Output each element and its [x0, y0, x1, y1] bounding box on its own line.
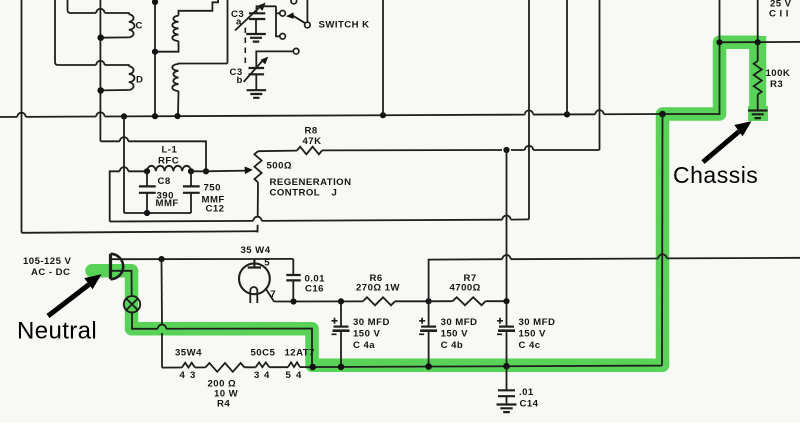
svg-text:AC - DC: AC - DC — [31, 267, 70, 278]
AC plug — [109, 254, 112, 279]
coil D bottom lead — [101, 89, 129, 91]
svg-text:7: 7 — [270, 289, 276, 300]
svg-text:C12: C12 — [206, 204, 225, 215]
svg-text:4: 4 — [180, 370, 186, 381]
node neutral-heater junction — [309, 364, 316, 371]
heater 12AT7 — [288, 362, 300, 367]
node RFC out — [203, 168, 209, 174]
node grid junction — [503, 147, 509, 153]
coil secondary-1 bottom lead — [155, 41, 179, 52]
svg-text:D: D — [136, 75, 143, 86]
svg-text:47K: 47K — [303, 136, 322, 147]
potentiometer 500ohm — [254, 151, 261, 182]
svg-text:R4: R4 — [217, 398, 230, 409]
wire secondary vertical — [154, 0, 156, 116]
svg-text:35W4: 35W4 — [175, 348, 202, 359]
svg-text:4: 4 — [264, 370, 270, 381]
svg-text:12AT7: 12AT7 — [285, 348, 315, 359]
svg-text:500Ω: 500Ω — [267, 161, 293, 172]
C4c minus sign — [497, 333, 502, 335]
resistor R7 — [453, 297, 486, 305]
ground below C14 — [497, 405, 517, 413]
capacitor C3b arrow — [244, 59, 264, 82]
switch K top contact — [291, 0, 297, 4]
wire heater feed vertical — [161, 259, 164, 368]
capacitor C3a ground lead — [255, 19, 257, 34]
coil C bottom lead — [101, 36, 129, 38]
ground below C3a — [246, 34, 266, 42]
coil secondary-1 top lead — [179, 0, 219, 16]
pilot lamp — [124, 296, 140, 312]
svg-text:C16: C16 — [305, 284, 324, 295]
svg-text:L-1: L-1 — [162, 145, 178, 156]
switch K contact 1 — [280, 11, 286, 17]
node bus-383 — [380, 112, 386, 118]
bus hop over antenna line — [17, 113, 25, 117]
wire switch-K line to bus — [382, 0, 384, 115]
svg-text:C8: C8 — [158, 176, 171, 187]
node RFC right — [188, 168, 194, 174]
svg-text:Chassis: Chassis — [673, 162, 758, 188]
wire plug neutral lead — [112, 271, 132, 296]
node jog junction — [716, 39, 722, 45]
node primary-C junction — [97, 34, 104, 41]
capacitor C3b terminal circle — [293, 48, 299, 54]
bus hop over V1 — [525, 110, 533, 114]
resistor R4 — [206, 363, 245, 372]
capacitor C3b terminal lead — [256, 51, 293, 67]
node C16 bottom — [290, 298, 296, 304]
coil D — [129, 66, 135, 90]
wire switch feed vertical — [276, 6, 280, 36]
node C4b top — [426, 298, 432, 304]
capacitor C14 — [506, 366, 508, 390]
wire cap bottom line — [124, 212, 191, 214]
wire C11 line — [719, 0, 721, 42]
svg-text:SWITCH K: SWITCH K — [319, 19, 370, 30]
wire pin7 line — [274, 300, 363, 302]
svg-text:R8: R8 — [305, 126, 318, 137]
wire bus to cap bottom — [123, 116, 125, 213]
svg-text:C14: C14 — [520, 398, 539, 409]
wire transformer primary vertical — [99, 0, 101, 141]
wire grid line vertical — [599, 0, 601, 150]
heater 50C5 — [256, 362, 270, 367]
bus hop over grid line — [595, 110, 603, 114]
svg-text:30 MFD: 30 MFD — [441, 317, 478, 328]
svg-text:150 V: 150 V — [441, 329, 468, 340]
wire RFC left lead — [110, 171, 147, 221]
node C4a top — [338, 298, 344, 304]
svg-text:CONTROL: CONTROL — [270, 188, 321, 199]
coil secondary-2 — [172, 64, 178, 91]
svg-text:4700Ω: 4700Ω — [450, 283, 481, 294]
C4a plus sign — [332, 318, 338, 324]
svg-text:C I I: C I I — [769, 9, 789, 20]
heater 35W4 — [182, 363, 195, 368]
svg-text:150 V: 150 V — [519, 329, 546, 340]
wire stub to coil C — [68, 0, 71, 13]
svg-text:50C5: 50C5 — [251, 348, 276, 359]
node bus-567 — [564, 111, 570, 117]
C4c plus sign — [497, 318, 503, 324]
tube 35W4 pin7 lead — [265, 288, 274, 302]
wire main bus — [0, 114, 663, 117]
node secondary-1 tap — [152, 49, 158, 55]
H4 hop over pot lead — [253, 217, 261, 221]
switch K contact 2 — [280, 34, 286, 40]
coil D top lead — [58, 65, 129, 66]
Neutral arrow — [48, 285, 89, 317]
wire B+ takeoff — [429, 258, 800, 302]
wire grid return H5 — [22, 231, 258, 233]
capacitor C8 — [146, 171, 148, 186]
H2 hop over v124 — [120, 137, 128, 141]
wire vertical antenna line left — [21, 0, 23, 233]
node C4a bottom — [338, 364, 345, 371]
wire line to bus 567 — [566, 0, 568, 114]
svg-text:100K: 100K — [766, 68, 791, 79]
tube 35W4 heater — [250, 287, 257, 303]
wire plug hot lead — [112, 258, 293, 260]
capacitor C3b ground lead — [255, 74, 257, 89]
switch K pivot stem — [306, 0, 308, 22]
svg-text:R3: R3 — [770, 79, 783, 90]
svg-text:4: 4 — [296, 370, 302, 381]
node C4c top — [503, 298, 509, 304]
neutral hop over heater feed — [158, 325, 166, 329]
node green bus junction — [659, 111, 666, 118]
switch K pivot contact — [305, 22, 311, 28]
svg-text:a: a — [236, 17, 242, 28]
bus hop over primary — [96, 112, 104, 116]
wire box bottom H4 — [110, 219, 529, 221]
Chassis arrow — [703, 132, 739, 163]
capacitor C16 — [292, 259, 294, 275]
svg-text:C 4c: C 4c — [519, 340, 541, 351]
B+ line hop over green line — [658, 254, 666, 258]
node hot junction — [158, 256, 164, 262]
svg-text:750: 750 — [204, 183, 221, 194]
R8 line hop over V1 — [525, 146, 533, 150]
coil secondary-1 — [172, 16, 178, 41]
wire 25V C11 lead — [757, 0, 759, 42]
capacitor C3a plates — [249, 13, 265, 19]
svg-text:3: 3 — [190, 370, 196, 381]
capacitor 30MFD C4c — [506, 301, 508, 326]
capacitor C3b plates — [249, 68, 265, 74]
node secondary top — [152, 0, 158, 5]
tube 35W4 envelope — [239, 263, 270, 294]
node primary-D junction — [97, 87, 104, 94]
capacitor 30MFD C4b — [428, 301, 430, 326]
coil secondary-2 top lead — [179, 63, 228, 66]
gang dashed link — [244, 28, 246, 67]
ground below C3b — [247, 90, 267, 98]
wire bus to chassis jog — [663, 42, 800, 114]
svg-text:Neutral: Neutral — [17, 318, 97, 345]
wire RFC to wiper arrow — [191, 170, 247, 173]
coil C — [129, 14, 135, 37]
H4 hop over grid cap line — [502, 215, 510, 219]
B+ line hop over grid line — [502, 255, 510, 259]
node C4c bottom — [503, 363, 510, 370]
node bus-124 — [121, 113, 127, 119]
wire green return up — [661, 114, 664, 366]
svg-text:270Ω 1W: 270Ω 1W — [356, 283, 400, 294]
capacitor C3a top lead — [257, 6, 277, 13]
svg-text:105-125 V: 105-125 V — [23, 256, 71, 267]
chassis ground below R3 — [748, 111, 768, 119]
resistor R3 — [757, 42, 759, 61]
svg-text:.01: .01 — [519, 387, 534, 398]
coil secondary-2 bottom lead — [177, 91, 180, 116]
svg-text:MMF: MMF — [156, 198, 179, 209]
coil C top lead — [71, 13, 129, 14]
svg-text:RFC: RFC — [158, 156, 179, 167]
resistor R6 — [363, 297, 395, 305]
wire highlighted neutral path (green) — [92, 42, 758, 365]
capacitor C12 — [190, 171, 192, 186]
node bus-155 — [152, 113, 158, 119]
svg-text:3: 3 — [254, 370, 260, 381]
svg-text:30 MFD: 30 MFD — [353, 317, 390, 328]
capacitor C3a arrow — [235, 6, 261, 31]
C4b minus sign — [419, 333, 424, 335]
svg-text:REGENERATION: REGENERATION — [270, 177, 352, 188]
svg-text:30 MFD: 30 MFD — [519, 317, 556, 328]
wire stub to coil D — [55, 0, 58, 65]
wire R7 span — [429, 300, 453, 302]
svg-text:C: C — [136, 21, 143, 32]
svg-text:b: b — [237, 75, 243, 86]
resistor R8 — [258, 150, 297, 153]
node cap bottom junction — [144, 210, 150, 216]
svg-text:5: 5 — [264, 258, 270, 269]
node bus-177 — [174, 113, 180, 119]
node C4b bottom — [425, 363, 432, 370]
C4b plus sign — [419, 318, 425, 324]
wire heater string — [162, 366, 662, 368]
wire grid line down — [506, 150, 508, 301]
wire lamp to neutral run — [132, 313, 312, 367]
inductor L-1 RFC — [147, 166, 191, 172]
node R3 top junction — [755, 39, 761, 45]
wire green highlight over R3 to chassis ground — [749, 36, 766, 112]
C4a minus sign — [332, 333, 337, 335]
svg-text:C 4b: C 4b — [441, 340, 464, 351]
switch K arm — [292, 15, 306, 23]
tube 35W4 plate — [248, 259, 261, 268]
capacitor 30MFD C4a — [340, 301, 342, 326]
svg-text:C 4a: C 4a — [353, 340, 375, 351]
wire V1 plate line — [528, 0, 530, 219]
svg-text:5: 5 — [286, 370, 292, 381]
svg-text:35 W4: 35 W4 — [241, 245, 271, 256]
wire tuning link vertical — [227, 0, 229, 64]
node RFC left — [144, 168, 150, 174]
wire H2 primary to RFC — [100, 141, 206, 171]
RFC lead hop over v124 — [120, 167, 128, 171]
svg-text:J: J — [332, 188, 338, 199]
svg-text:150 V: 150 V — [353, 329, 380, 340]
